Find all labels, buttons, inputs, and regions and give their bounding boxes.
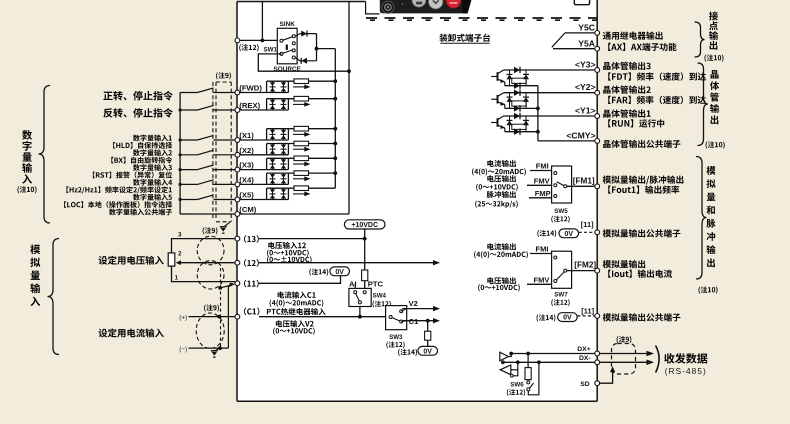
junction	[537, 360, 541, 364]
junction	[333, 156, 337, 160]
junction	[218, 315, 222, 319]
label 【FDT】频率（速度）到达	[608, 72, 611, 80]
junction on (13) line	[363, 237, 367, 241]
SW7 pins	[554, 256, 567, 283]
switch SW5 box	[552, 166, 572, 203]
label 晶体管输出3	[603, 62, 610, 70]
signal arrow	[293, 193, 306, 195]
svg-text:[11]: [11]	[581, 307, 594, 316]
label (0～+10VDC)	[478, 284, 480, 291]
label (注14)	[398, 349, 400, 356]
terminal DX+	[595, 351, 600, 356]
svg-text:<Y3>: <Y3>	[575, 59, 596, 69]
label 模拟量输出公共端子	[603, 229, 611, 237]
label (注12) SW7	[551, 299, 553, 306]
svg-text:(REX): (REX)	[239, 101, 260, 110]
junction	[536, 107, 540, 111]
dashed link to [11]	[577, 315, 595, 317]
SW7 lever	[557, 272, 565, 280]
switch SW6	[527, 381, 534, 391]
terminal [FM2]	[595, 268, 600, 273]
switch SW3 box	[386, 306, 407, 330]
SW3 pin stubs	[401, 309, 407, 312]
svg-text:SW1: SW1	[264, 46, 278, 53]
junction	[333, 171, 337, 175]
keypad small led	[402, 3, 403, 4]
SW3 lever	[392, 318, 400, 321]
transistor output Y1	[491, 116, 505, 132]
label 数字量输入5	[133, 194, 140, 201]
wire diode bus vertical	[316, 34, 318, 61]
svg-text:(RS-485): (RS-485)	[665, 367, 707, 376]
wire terminal to SW1	[240, 39, 282, 41]
oval +10VDC	[344, 220, 385, 229]
AI pin stub	[354, 284, 356, 289]
SD shield wire	[599, 371, 612, 383]
brace ) for RS485	[656, 346, 660, 373]
resistor X1 input	[294, 126, 309, 131]
series diode (collector)	[514, 113, 520, 119]
junction	[179, 168, 182, 171]
label （11）	[244, 280, 246, 288]
signal arrow	[293, 178, 306, 180]
label 模拟量输出/脉冲输出	[603, 176, 611, 184]
svg-text:Y5A: Y5A	[578, 38, 595, 48]
oval 0V (C1 net)	[418, 346, 438, 355]
label 反转、停止指令	[103, 108, 112, 117]
emitter rail	[505, 131, 538, 133]
series diode (emitter)	[514, 105, 520, 111]
wire CM	[240, 213, 349, 215]
label 装卸式端子台	[439, 34, 490, 44]
svg-text:SW4: SW4	[373, 292, 387, 299]
terminal (X4)	[235, 182, 240, 187]
label （13）	[244, 235, 246, 243]
svg-text:(X2): (X2)	[239, 146, 254, 155]
receiver input wire	[511, 369, 518, 371]
RS485 receiver triangle	[500, 365, 511, 375]
RS485 driver triangle	[500, 352, 509, 361]
terminal SD	[595, 381, 600, 386]
terminal Y5C	[595, 31, 600, 36]
label (注9) current shield	[204, 305, 206, 312]
junction	[179, 108, 182, 111]
label (注9) RS485	[617, 336, 619, 343]
terminal (X1)	[235, 138, 240, 143]
series diode (collector)	[514, 90, 520, 96]
brace analog and pulse output	[696, 157, 707, 280]
dashed link to [11]	[579, 231, 595, 233]
junction	[426, 319, 430, 323]
label 数字量输入4	[133, 179, 140, 186]
shield ground (current)	[211, 346, 222, 357]
opto-coupler input FWD	[240, 81, 336, 92]
terminal (X5)	[235, 197, 240, 202]
label (0～+10VDC)	[273, 328, 275, 335]
wire from top border to node	[261, 2, 263, 41]
wire to opto bus	[317, 48, 336, 50]
label (0～+10VDC)	[476, 184, 478, 191]
terminal (FWD)	[235, 90, 240, 95]
switch SW1 box	[277, 28, 297, 64]
junction	[179, 198, 182, 201]
SW4 pins	[354, 291, 367, 304]
svg-text:STOP: STOP	[449, 1, 457, 5]
shielded cable (digital inputs)	[213, 82, 231, 222]
svg-text:V2: V2	[409, 299, 418, 308]
keypad potentiometer knob	[382, 1, 394, 13]
wire pot pin1 to (11)	[172, 266, 236, 282]
wire to terminator	[527, 354, 529, 368]
svg-text:Y5C: Y5C	[578, 23, 595, 33]
terminal <Y1>	[595, 114, 600, 119]
label 电压输入V2	[276, 320, 282, 327]
collector line Y3	[504, 69, 598, 71]
command switch for (REX)	[180, 105, 234, 110]
label (注12) SW3	[386, 342, 388, 349]
resistor X3 input	[294, 156, 309, 161]
terminal (C1)	[235, 314, 240, 319]
svg-text:(FWD): (FWD)	[239, 84, 262, 93]
command switch for (X3)	[180, 165, 234, 170]
svg-text:SD: SD	[580, 381, 590, 388]
label (注12) SW6	[507, 389, 509, 396]
junction	[315, 47, 319, 51]
clamp diode 1	[507, 116, 513, 132]
emitter rail	[505, 107, 538, 109]
oval 0V (11)	[330, 267, 350, 276]
wire V2 out	[402, 308, 433, 310]
terminal [11]	[595, 230, 600, 235]
wire Y5C	[565, 32, 595, 34]
wire (13)	[259, 238, 365, 240]
label （12）	[244, 259, 246, 267]
terminal (REX)	[235, 108, 240, 113]
driver output stub	[508, 354, 511, 357]
emitter rail	[505, 85, 538, 87]
photocoupler box	[512, 101, 526, 106]
label (注10)	[17, 186, 19, 193]
relay contact AX	[552, 33, 565, 47]
keypad/CM vertical wire	[348, 2, 350, 215]
wire to 0V resistor	[427, 321, 429, 332]
svg-text:[11]: [11]	[581, 220, 594, 229]
opto-coupler input X3	[240, 158, 336, 169]
wire FMI	[530, 170, 552, 172]
terminal [11] second	[595, 314, 600, 319]
label (4(0)～20mADC)	[472, 168, 474, 175]
switch common bus	[179, 93, 181, 215]
wire FMV	[527, 184, 552, 186]
clamp diode 2	[523, 70, 529, 86]
driver enable bubble	[502, 361, 505, 364]
wire FMP	[529, 197, 552, 199]
keypad STOP button	[446, 0, 461, 8]
label （C1）	[244, 308, 246, 316]
opto-coupler input X4	[240, 173, 336, 184]
label 【FAR】频率（速度）到达	[608, 96, 611, 104]
wire +10VDC feed	[364, 229, 366, 270]
label (注10)	[704, 55, 706, 62]
SW1 link bar	[286, 45, 288, 51]
wire SW4 to C1 line	[359, 307, 361, 317]
receiver bubble	[510, 374, 513, 377]
photocoupler box	[512, 78, 526, 83]
label 晶体管输出1	[603, 110, 610, 118]
svg-text:SW6: SW6	[510, 381, 524, 388]
svg-text:<CMY>: <CMY>	[566, 130, 595, 140]
svg-text:DX+: DX+	[577, 346, 590, 353]
shielded cable (RS485)	[612, 344, 636, 375]
wire FMV FM2	[527, 283, 552, 285]
resistor X4 input	[294, 171, 309, 176]
terminal (CM)	[235, 212, 240, 217]
wire to SW4	[364, 281, 366, 289]
brace analog inputs	[48, 239, 60, 355]
label 电压输入12	[268, 242, 274, 249]
diode D-sink	[295, 31, 316, 37]
svg-text:(+): (+)	[179, 314, 187, 321]
label (0～±10VDC)	[267, 256, 269, 263]
svg-text:0V: 0V	[565, 231, 574, 238]
label (4(0)～20mADC)	[270, 300, 272, 307]
brace transistor output	[698, 63, 709, 146]
wire resistor to SW6	[527, 380, 529, 381]
label (注12) SW5	[551, 216, 553, 223]
label 【Hz2/Hz1】频率设定2/频率设定1	[66, 186, 68, 193]
wire (12) with arrow	[259, 262, 434, 264]
svg-text:0V: 0V	[563, 315, 572, 322]
terminal (X3)	[235, 167, 240, 172]
signal arrow	[293, 103, 306, 105]
keypad (operation panel) body	[380, 0, 472, 13]
svg-text:+10VDC: +10VDC	[351, 222, 378, 229]
shield drain to (11)	[218, 268, 235, 348]
oval 0V FM2 common	[558, 313, 578, 322]
collector line Y2	[504, 92, 598, 94]
SW5 pins	[554, 172, 567, 198]
svg-text:SW3: SW3	[389, 334, 403, 341]
label 模拟量输出	[603, 260, 611, 268]
inverter main block body	[237, 0, 597, 401]
junction	[179, 138, 182, 141]
resistor FWD input	[294, 79, 309, 84]
label 数字量输入公共端子	[109, 209, 116, 216]
photocoupler box	[512, 124, 526, 129]
resistor X5 input	[294, 186, 309, 191]
svg-text:FMI: FMI	[536, 162, 549, 171]
label (0～+10VDC)	[267, 249, 269, 256]
series diode (emitter)	[514, 83, 520, 89]
label 模拟量输出公共端子	[603, 313, 611, 321]
signal arrow	[293, 133, 306, 135]
svg-text:SW5: SW5	[554, 208, 568, 215]
potentiometer (voltage setting)	[168, 253, 181, 266]
opto-coupler input X2	[240, 144, 336, 155]
resistor X2 input	[294, 141, 309, 146]
terminating resistor	[525, 368, 531, 380]
svg-text:FMV: FMV	[534, 275, 550, 284]
wire resistor to 0V oval	[427, 340, 429, 346]
label (注10)	[698, 287, 700, 294]
oval 0V FM1 common	[559, 229, 579, 238]
command switch for (X1)	[180, 135, 234, 140]
svg-text:DX-: DX-	[579, 355, 591, 362]
brace contact output	[695, 22, 705, 57]
label 晶体管输出 (vertical)	[711, 70, 719, 78]
label (注9) digital shield	[216, 72, 218, 79]
label 晶体管输出2	[603, 86, 610, 94]
SW1 levers	[283, 37, 293, 41]
label 设定用电流输入	[99, 329, 108, 338]
switch SW7 box	[552, 251, 572, 288]
svg-text:(−): (−)	[179, 346, 187, 353]
clamp diode 2	[523, 93, 529, 109]
terminal <Y2>	[595, 90, 600, 95]
signal arrow	[293, 148, 306, 150]
label PTC热继电器输入	[267, 309, 271, 315]
label (注12) SW4	[373, 301, 375, 308]
junction	[333, 127, 337, 131]
terminal Y5A	[595, 46, 600, 51]
label 收发数据	[664, 353, 674, 363]
label 电压输出 FM1	[487, 175, 493, 182]
svg-text:SW7: SW7	[554, 291, 568, 298]
wire FMI FM2	[530, 253, 552, 255]
terminal [FM1]	[595, 184, 600, 189]
label 数字量输入 (vertical)	[22, 130, 32, 140]
opto-coupler input X1	[240, 129, 336, 140]
junction	[179, 153, 182, 156]
label 【RUN】运行中	[608, 119, 611, 127]
collector line Y1	[504, 115, 598, 117]
label 【LOC】本地（操作面板）指令选择	[64, 201, 66, 208]
label 【RST】报警（异常）复位	[93, 172, 95, 179]
label 晶体管输出公共端子	[603, 140, 610, 148]
junction	[347, 69, 351, 73]
svg-text:(X1): (X1)	[239, 131, 254, 140]
SW1 pole pins	[280, 35, 295, 59]
terminal <Y3>	[595, 68, 600, 73]
svg-text:FMP: FMP	[535, 189, 551, 198]
junction	[179, 183, 182, 186]
diode D-source	[295, 58, 316, 64]
receiver link wire	[513, 362, 518, 376]
transistor output Y3	[491, 70, 505, 86]
current source (+) wire to (C1)	[189, 316, 236, 318]
label 设定用电压输入	[99, 256, 108, 265]
svg-text:PTC: PTC	[368, 280, 384, 289]
wire FM1 out	[567, 185, 595, 187]
label 【AX】AX端子功能	[608, 43, 611, 51]
junction	[333, 79, 337, 83]
label 电流输入C1	[278, 291, 284, 298]
shielded cable (voltage input)	[197, 236, 224, 265]
transistor output Y2	[491, 93, 505, 109]
svg-text:[FM2]: [FM2]	[574, 260, 596, 269]
removable terminal block boundary (chain line)	[366, 18, 597, 20]
shielded cable (current input)	[196, 313, 224, 348]
command switch for (X5)	[180, 195, 234, 200]
signal arrow	[293, 163, 306, 165]
terminal (note12) PLC port	[235, 38, 240, 43]
series diode (emitter)	[514, 129, 520, 135]
label (注10) transistor common	[706, 141, 708, 148]
SW6 return wire to DX-	[528, 362, 539, 395]
svg-text:FMI: FMI	[536, 245, 549, 254]
command switch for (X2)	[180, 150, 234, 155]
wire pot pin3 to (13)	[172, 239, 236, 253]
label 模拟量和脉冲输出 (vertical)	[706, 166, 715, 175]
label 电压输出 FM2	[487, 277, 493, 284]
junction	[358, 315, 362, 319]
terminal (12)	[235, 260, 240, 265]
series diode (collector)	[514, 67, 520, 73]
label 数字量输入1	[133, 135, 140, 142]
svg-text:0V: 0V	[423, 348, 432, 355]
svg-text:C1: C1	[409, 317, 419, 326]
wire (C1)	[259, 316, 386, 318]
brace digital inputs	[39, 86, 51, 224]
signal arrow	[293, 86, 306, 88]
opto feed bus vertical	[334, 49, 336, 189]
wire (11) to 0V	[259, 276, 341, 284]
keypad mounting frame notch	[366, 2, 380, 14]
command switch for (X4)	[180, 180, 234, 185]
label 接点输出 (vertical)	[709, 12, 718, 21]
junction	[516, 360, 520, 364]
terminal (11)	[235, 281, 240, 286]
SOURCE pole common wire to CM net	[258, 54, 349, 71]
wire FM2 out	[567, 270, 595, 272]
command switch for (FWD)	[180, 88, 234, 93]
junction	[333, 97, 337, 101]
label 模拟量输入 (vertical)	[30, 244, 40, 254]
label 【Iout】输出电流	[608, 270, 611, 278]
label 【Fout1】输出频率	[608, 185, 611, 193]
label (注9) voltage shield	[203, 227, 205, 234]
junction	[261, 39, 265, 43]
label (注14)	[537, 230, 539, 237]
junction	[333, 142, 337, 146]
clamp diode 2	[523, 116, 529, 132]
svg-text:0V: 0V	[335, 269, 344, 276]
switch SW4 box	[349, 288, 371, 306]
shield ground (digital)	[220, 223, 230, 234]
svg-text:(X4): (X4)	[239, 175, 254, 184]
terminal (X2)	[235, 152, 240, 157]
label 【BX】自由旋转指令	[111, 157, 113, 164]
svg-text:(X5): (X5)	[239, 191, 254, 200]
wire C1 out	[402, 320, 433, 322]
emitter bus	[537, 86, 539, 141]
wire DX+	[511, 353, 646, 355]
cut-off box at top (relay frame)	[574, 0, 589, 5]
label (注14)	[537, 314, 539, 321]
terminal (13)	[235, 236, 240, 241]
svg-text:(X3): (X3)	[239, 161, 254, 170]
SW3 pins	[389, 310, 403, 323]
clamp diode 1	[507, 93, 513, 109]
label 通用继电器输出	[603, 32, 611, 40]
wire DX-	[502, 361, 647, 363]
junction	[526, 352, 530, 356]
terminal DX-	[595, 360, 600, 365]
wire Y5A	[553, 48, 595, 50]
label (25～32kp/s)	[475, 201, 477, 208]
label 电流输出 FM2	[487, 243, 493, 250]
resistor REX input	[294, 96, 309, 101]
